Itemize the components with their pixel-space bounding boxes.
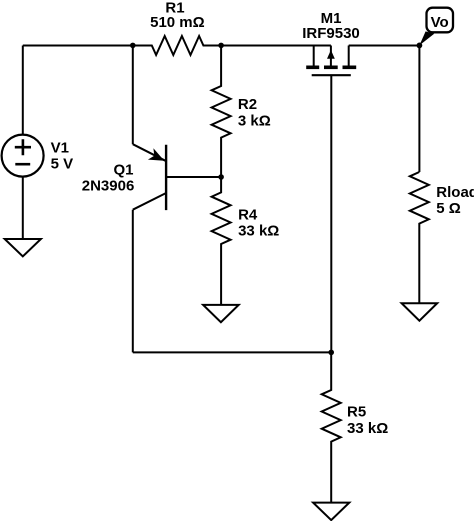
wire M1 gate down to node D <box>330 75 332 352</box>
svg-text:V1: V1 <box>51 139 69 156</box>
svg-text:R2: R2 <box>238 96 257 113</box>
svg-text:33 kΩ: 33 kΩ <box>238 223 279 240</box>
ground below R5 <box>313 503 349 520</box>
resistor R1 510 mOhm <box>133 36 221 55</box>
Q1 emitter diagonal with arrow into base <box>133 144 166 161</box>
svg-text:510 mΩ: 510 mΩ <box>150 14 205 31</box>
svg-text:Q1: Q1 <box>113 161 133 178</box>
Q1 emitter arrowhead <box>148 148 164 160</box>
wire Q1 emitter vertical <box>132 46 134 145</box>
node D junction dot (gate/R5/collector) <box>328 350 334 356</box>
node A junction dot (V1/R1/Q1 emitter) <box>130 43 136 49</box>
node C junction dot (R2/R4/Q1 base) <box>218 174 224 180</box>
Q1 collector diagonal <box>133 193 166 210</box>
resistor R5 33 kOhm <box>322 352 341 502</box>
wire Q1 base to node C <box>166 176 221 178</box>
V1 plus sign <box>15 139 31 155</box>
label R5 <box>347 404 388 437</box>
ground below R4 <box>203 305 239 322</box>
svg-text:R5: R5 <box>347 404 366 421</box>
wire V1 negative lead <box>22 177 24 239</box>
svg-text:IRF9530: IRF9530 <box>302 25 360 42</box>
M1 body arrow up <box>327 50 335 59</box>
wire Q1 collector vertical <box>132 210 134 353</box>
svg-text:5 Ω: 5 Ω <box>436 200 461 217</box>
M1 body vertical <box>330 46 332 66</box>
svg-text:R4: R4 <box>238 207 258 224</box>
svg-text:33 kΩ: 33 kΩ <box>347 420 388 437</box>
resistor R2 3 kOhm <box>212 46 231 178</box>
M1 channel bar source <box>306 66 319 70</box>
wire top-left horizontal from V1 to node A <box>23 45 133 47</box>
svg-text:2N3906: 2N3906 <box>82 178 135 195</box>
resistor Rload 5 Ohm <box>410 172 429 303</box>
label R2 <box>238 96 271 130</box>
wire M1 drain to node Vo <box>349 45 420 47</box>
svg-text:Vo: Vo <box>431 14 449 31</box>
label Q1 <box>82 161 135 194</box>
node B junction dot (R1/R2/M1 source) <box>218 43 224 49</box>
resistor R4 33 kOhm <box>212 177 231 305</box>
label R4 <box>238 207 279 240</box>
svg-text:5 V: 5 V <box>51 155 74 172</box>
svg-text:Rload: Rload <box>436 184 474 201</box>
wire Vo node down to Rload <box>418 46 420 173</box>
ground below Rload <box>402 303 438 321</box>
ground below V1 <box>5 239 41 256</box>
label R1 <box>150 0 205 31</box>
V1 minus sign <box>15 163 30 166</box>
voltage source V1 circle <box>2 135 44 177</box>
M1 drain vertical <box>348 46 350 66</box>
wire node B to M1 source/body <box>221 45 331 47</box>
label node Vo <box>431 14 449 31</box>
transistor Q1 2N3906 base bar <box>165 145 167 210</box>
wire V1 positive lead <box>22 46 24 135</box>
svg-text:3 kΩ: 3 kΩ <box>238 113 271 130</box>
label M1 <box>302 10 360 42</box>
transistor M1 IRF9530 source vertical <box>313 46 315 66</box>
M1 channel bar drain <box>343 66 357 70</box>
M1 channel bar body <box>324 66 338 70</box>
Vo flag callout tail <box>419 31 434 45</box>
M1 gate bar <box>312 74 351 76</box>
label Rload <box>436 184 474 217</box>
wire bottom horizontal collector to node D <box>133 351 331 353</box>
label V1 value <box>51 139 74 172</box>
Vo flag box <box>427 8 454 33</box>
node Vo junction dot <box>417 43 423 49</box>
